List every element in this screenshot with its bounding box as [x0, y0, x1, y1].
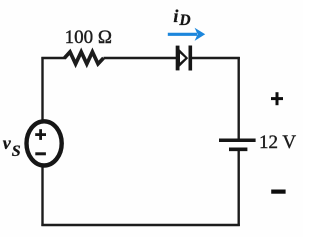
diode D1 cathode bar: [189, 46, 193, 71]
wire left vertical (bottom half): [41, 166, 43, 226]
wire right vertical (top half): [237, 57, 239, 139]
wire right vertical (bottom half): [237, 150, 239, 226]
source plus sign: [35, 129, 46, 140]
battery plus polarity: [271, 92, 283, 105]
battery 12V short plate: [229, 147, 247, 151]
wire top horizontal (resistor to diode): [104, 57, 178, 59]
label vS: [3, 133, 21, 154]
wire top horizontal (diode to top-right corner): [192, 57, 240, 59]
label iD: [173, 6, 190, 27]
battery 12V long plate: [219, 138, 256, 142]
diode D1 (triangle, outer): [176, 46, 188, 71]
source minus sign: [35, 152, 46, 155]
diode D1 (triangle, inner white): [180, 53, 185, 62]
wire left vertical (top half): [41, 57, 43, 121]
current arrow iD (blue): [168, 28, 205, 41]
battery minus polarity: [271, 190, 285, 194]
voltage source vS (ellipse): [26, 121, 61, 165]
wire bottom horizontal: [41, 224, 239, 226]
label 12 V: [259, 132, 296, 154]
resistor R1 100 ohm zigzag: [65, 52, 104, 64]
label 100 ohm: [65, 27, 112, 49]
diode D1 anode bar (left edge of triangle): [176, 46, 180, 71]
wire top horizontal (left lead to resistor): [41, 57, 66, 59]
